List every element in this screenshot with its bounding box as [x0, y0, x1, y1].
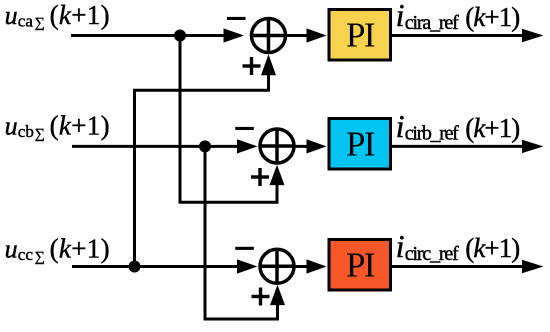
summing junction S2: [260, 129, 294, 163]
wire S1 to PI1: [285, 34, 310, 37]
svg-text:i: i: [396, 108, 405, 144]
arrowhead into PI3: [307, 259, 327, 273]
arrowhead into summer S3 minus input: [237, 259, 258, 273]
svg-text:u: u: [5, 1, 18, 30]
wire J2 to S3 plus input (phase b feeds summer c): [205, 146, 278, 319]
svg-text:PI: PI: [346, 245, 375, 284]
minus sign at S3: [235, 247, 254, 250]
node J2 tap on row2: [199, 140, 211, 152]
svg-text:i: i: [396, 0, 405, 33]
arrowhead into summer S2 minus input: [237, 139, 258, 153]
wire J3 to S1 plus input (phase c feeds summer a): [135, 74, 269, 267]
wire row3 input: [72, 265, 240, 268]
plus sign at S3: [252, 288, 270, 306]
svg-text:circ_ref: circ_ref: [405, 243, 459, 265]
arrowhead into S3 bottom: [270, 285, 285, 305]
svg-text:u: u: [5, 235, 18, 264]
arrowhead into S2 bottom: [270, 165, 285, 185]
wire S3 to PI3: [294, 265, 313, 268]
svg-text:cb: cb: [18, 122, 34, 141]
input label u_ccS(k+1): [5, 234, 110, 265]
wire PI2 output: [392, 145, 527, 148]
wire PI1 output: [392, 34, 527, 37]
wire S2 to PI2: [294, 145, 313, 148]
svg-text:∑: ∑: [35, 127, 45, 142]
svg-text:(k+1): (k+1): [50, 0, 110, 30]
arrowhead into summer S1 minus input: [224, 28, 245, 42]
wire row1 input: [71, 34, 230, 37]
svg-text:(k+1): (k+1): [465, 113, 520, 143]
svg-text:(k+1): (k+1): [465, 233, 520, 263]
arrowhead into PI1: [307, 28, 327, 42]
plus sign at S2: [251, 168, 269, 186]
svg-text:i: i: [396, 228, 405, 264]
svg-text:cc: cc: [18, 245, 34, 264]
wire PI3 output: [392, 265, 527, 268]
svg-text:cira_ref: cira_ref: [405, 12, 459, 34]
PI block PI3: [329, 240, 391, 291]
output label i_circ_ref(k+1): [396, 228, 521, 265]
svg-text:PI: PI: [346, 15, 375, 54]
summing junction S1: [252, 19, 286, 53]
output label i_cira_ref(k+1): [396, 0, 521, 34]
arrowhead output row3: [522, 260, 544, 273]
svg-text:cirb_ref: cirb_ref: [405, 123, 459, 145]
output label i_cirb_ref(k+1): [396, 108, 521, 145]
input label u_caS(k+1): [5, 0, 110, 31]
wire row2 input: [72, 145, 240, 148]
svg-text:∑: ∑: [35, 16, 45, 31]
svg-text:(k+1): (k+1): [50, 111, 110, 141]
arrowhead output row1: [522, 29, 544, 42]
PI block PI1: [329, 10, 391, 61]
arrowhead into S1 bottom: [261, 54, 276, 75]
svg-text:(k+1): (k+1): [465, 2, 520, 32]
svg-text:∑: ∑: [35, 250, 45, 265]
node J1 tap on row1: [174, 30, 186, 42]
arrowhead output row2: [522, 140, 544, 153]
summing junction S3: [260, 249, 294, 283]
arrowhead into PI2: [307, 139, 327, 153]
svg-text:u: u: [5, 112, 18, 141]
input label u_cbS(k+1): [5, 111, 110, 142]
PI block PI2: [329, 119, 391, 170]
svg-text:(k+1): (k+1): [50, 234, 110, 264]
node J3 tap on row3: [129, 261, 141, 273]
minus sign at S1: [227, 17, 246, 20]
wire J1 to S2 plus input (phase a feeds summer b): [180, 36, 277, 203]
svg-text:ca: ca: [18, 11, 34, 30]
minus sign at S2: [235, 127, 254, 130]
svg-text:PI: PI: [346, 124, 375, 163]
plus sign at S1: [243, 57, 261, 75]
